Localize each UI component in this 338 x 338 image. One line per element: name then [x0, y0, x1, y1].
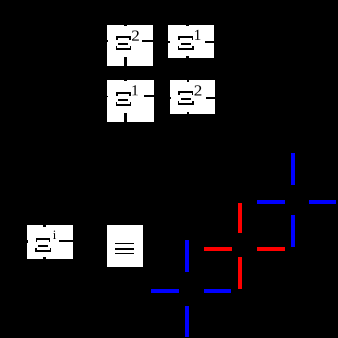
box3 tick bottom — [124, 113, 127, 122]
box3 tick left — [107, 96, 109, 98]
box2 tick bottom — [186, 56, 189, 58]
junction C right (blue) — [309, 200, 336, 204]
box5 tick left — [27, 240, 29, 243]
glyph Xi (bottom-left box) — [35, 238, 51, 252]
box2 tick left — [168, 41, 169, 43]
superscript 1 (row2-left box) — [132, 85, 137, 95]
white label box Xi^1 (top-right) — [168, 25, 214, 59]
junction A down (blue) — [185, 306, 189, 337]
junction B down (red) — [238, 257, 242, 289]
box3 tick top — [124, 80, 127, 82]
glyph Xi (row2-left box) — [116, 92, 132, 106]
box2 tick right — [205, 41, 214, 43]
junction A right (blue) — [204, 289, 231, 293]
box1 tick right — [142, 40, 153, 42]
box3 tick right — [144, 95, 154, 97]
box1 tick bottom — [124, 57, 127, 66]
junction C left (blue) — [257, 200, 285, 204]
junction A up (blue) — [185, 240, 189, 272]
glyph Xi (row2-right box) — [178, 91, 194, 105]
equiv bar 1 — [115, 243, 134, 245]
glyph Xi (top-left box) — [116, 36, 132, 50]
box4 tick left — [170, 97, 171, 99]
superscript 2 (top-left box) — [132, 30, 139, 40]
white label box Xi^1 (row2-left) — [107, 80, 155, 122]
junction C down (blue) — [291, 215, 295, 248]
glyph Xi (top-right box) — [178, 36, 194, 50]
junction C up (blue) — [291, 153, 295, 185]
box5 tick top — [43, 225, 46, 226]
box4 tick bottom — [187, 112, 189, 114]
box4 tick top — [187, 80, 189, 82]
box5 tick right — [59, 240, 73, 242]
equiv bar 3 — [115, 253, 134, 255]
junction A left (blue) — [151, 289, 179, 293]
equiv bar 2 — [115, 248, 134, 250]
superscript 1 (top-right box) — [195, 30, 200, 40]
box2 tick top — [186, 25, 189, 26]
junction B left (red) — [204, 247, 232, 251]
white label box equiv — [107, 225, 143, 267]
junction B up (red) — [238, 203, 242, 233]
white label box Xi^2 (row2-right) — [170, 80, 215, 115]
superscript i (bottom-left box) — [53, 231, 56, 239]
junction B right (red) — [257, 247, 285, 251]
white label box Xi^i (bottom-left) — [27, 225, 73, 259]
box1 tick top — [124, 25, 127, 27]
box4 tick right — [206, 97, 215, 99]
white label box Xi^2 (top-left) — [107, 25, 154, 66]
box1 tick left — [107, 40, 109, 42]
box5 tick bottom — [43, 257, 46, 260]
superscript 2 (row2-right box) — [195, 85, 202, 95]
